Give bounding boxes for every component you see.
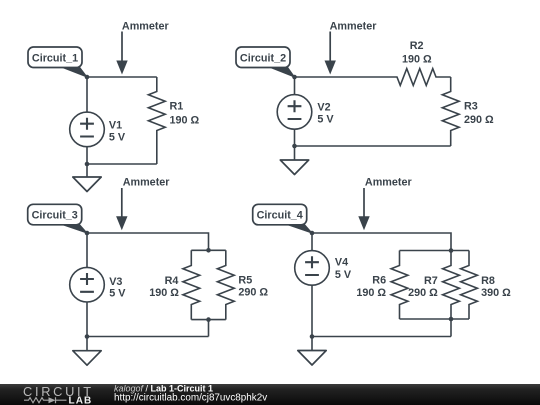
svg-text:190 Ω: 190 Ω (170, 114, 200, 126)
label R2 190 ohm (402, 40, 432, 65)
svg-text:Ammeter: Ammeter (122, 21, 170, 33)
wire: V4 bottom lead (311, 285, 313, 336)
wire: parallel top bar circuit 3 (191, 249, 226, 251)
svg-text:R8: R8 (481, 275, 495, 287)
wire: V2 top lead (294, 77, 296, 95)
label R6 190 ohm (356, 274, 386, 299)
node: parallel bottom junction circuit 4 (449, 317, 454, 322)
node: parallel bottom junction circuit 3 (206, 317, 211, 322)
wire: V4 top lead (311, 233, 313, 251)
svg-text:V3: V3 (109, 276, 122, 288)
wire: parallel bottom bar circuit 3 (191, 319, 226, 321)
circuit 2: label Circuit_2 (236, 47, 295, 77)
svg-text:290 Ω: 290 Ω (238, 287, 268, 299)
resistor R5 (217, 250, 234, 319)
voltage source V4 (295, 251, 330, 286)
wire: bottom rail circuit 1 (87, 163, 157, 165)
svg-text:5 V: 5 V (109, 132, 126, 144)
svg-text:190 Ω: 190 Ω (149, 287, 179, 299)
svg-text:R1: R1 (170, 101, 184, 113)
wire: bottom rail circuit 4 (312, 336, 451, 338)
ammeter arrow (circuit 2) (325, 32, 336, 75)
label R7 290 ohm (408, 275, 438, 299)
svg-text:Ammeter: Ammeter (365, 176, 413, 188)
wire: parallel bottom bar circuit 4 (400, 318, 470, 320)
resistor R2 (horizontal) (295, 69, 451, 86)
voltage source V2 (277, 95, 312, 130)
svg-text:5 V: 5 V (335, 269, 352, 281)
wire: right drop to bottom rail circuit 3 (208, 320, 210, 337)
resistor R3 (442, 77, 459, 146)
svg-text:190 Ω: 190 Ω (402, 54, 432, 66)
logo squiggle (resistor + diode) (24, 397, 67, 403)
svg-text:Ammeter: Ammeter (330, 21, 378, 33)
ammeter arrow (circuit 1) (116, 32, 127, 75)
ammeter arrow (circuit 3) (116, 188, 127, 230)
node: parallel top junction circuit 3 (206, 248, 211, 253)
svg-text:http://circuitlab.com/cj87uvc8: http://circuitlab.com/cj87uvc8phk2v (114, 392, 267, 403)
label R3 290 ohm (464, 100, 494, 126)
svg-text:V2: V2 (317, 102, 330, 114)
node: bottom-left junction circuit 1 (85, 162, 90, 167)
node: top-left junction circuit 4 (310, 231, 315, 236)
resistor R7 (443, 251, 460, 320)
circuit 1: label Circuit_1 (28, 47, 87, 77)
label V3 5 V (109, 276, 126, 300)
label R4 190 ohm (149, 275, 179, 299)
svg-text:Circuit_3: Circuit_3 (32, 210, 78, 222)
svg-text:LAB: LAB (69, 395, 93, 405)
svg-text:5 V: 5 V (109, 287, 126, 299)
wire: left branch upper (node to V1) (86, 77, 88, 112)
wire: right drop to bottom rail circuit 4 (450, 319, 452, 337)
label V1 5 V (109, 120, 126, 144)
voltage source V1 (70, 112, 105, 147)
resistor R8 (461, 251, 478, 320)
svg-text:Circuit_2: Circuit_2 (240, 52, 286, 64)
svg-text:Circuit_4: Circuit_4 (257, 210, 303, 222)
node: top-left junction circuit 3 (85, 231, 90, 236)
svg-text:290 Ω: 290 Ω (464, 114, 494, 126)
wire: parallel top bar circuit 4 (400, 250, 470, 252)
svg-text:R2: R2 (410, 40, 424, 52)
wire: V3 top lead (86, 233, 88, 267)
svg-text:190 Ω: 190 Ω (356, 287, 386, 299)
svg-text:390 Ω: 390 Ω (481, 287, 511, 299)
ammeter arrow (circuit 4) (358, 188, 369, 230)
wire: V2 bottom lead (294, 129, 296, 146)
label V4 5 V (335, 257, 352, 281)
wire: bottom rail circuit 3 (87, 336, 209, 338)
circuit 4: label Circuit_4 (253, 204, 312, 233)
svg-text:290 Ω: 290 Ω (408, 287, 438, 299)
wire: V3 bottom lead (86, 302, 88, 337)
node: bottom-left junction circuit 4 (310, 334, 315, 339)
label R8 390 ohm (481, 275, 511, 299)
wire: left branch lower (V1 to bottom rail) (86, 147, 88, 164)
svg-text:R6: R6 (372, 274, 386, 286)
node: parallel top junction circuit 4 (449, 248, 454, 253)
svg-text:V4: V4 (335, 257, 348, 269)
node: bottom-left junction circuit 3 (85, 334, 90, 339)
resistor R4 (183, 250, 200, 319)
resistor R6 (391, 251, 408, 320)
wire: top rail circuit 3 (87, 233, 209, 250)
footer bar (0, 384, 540, 405)
svg-text:R5: R5 (238, 275, 252, 287)
wire: top rail circuit 4 (312, 233, 451, 251)
ground circuit 4 (298, 337, 326, 366)
label R5 290 ohm (238, 275, 268, 299)
svg-text:V1: V1 (109, 120, 122, 132)
ground circuit 2 (280, 146, 308, 175)
svg-text:R4: R4 (165, 275, 179, 287)
svg-text:Ammeter: Ammeter (123, 176, 171, 188)
wire: top rail circuit 1 (87, 76, 157, 78)
resistor R1 (148, 77, 165, 164)
label V2 5 V (317, 102, 334, 126)
label R1 190 ohm (170, 101, 200, 127)
svg-text:R7: R7 (424, 275, 438, 287)
svg-text:R3: R3 (464, 100, 478, 112)
ground circuit 1 (73, 163, 101, 192)
node: bottom junction circuit 2 (292, 144, 297, 149)
circuit 3: label Circuit_3 (28, 204, 87, 233)
voltage source V3 (70, 267, 105, 302)
ground circuit 3 (73, 337, 101, 366)
node: top junction circuit 2 (292, 75, 297, 80)
svg-text:Circuit_1: Circuit_1 (32, 52, 78, 64)
svg-text:5 V: 5 V (317, 114, 334, 126)
wire: bottom rail circuit 2 (295, 145, 451, 147)
node: top-left junction circuit 1 (85, 75, 90, 80)
